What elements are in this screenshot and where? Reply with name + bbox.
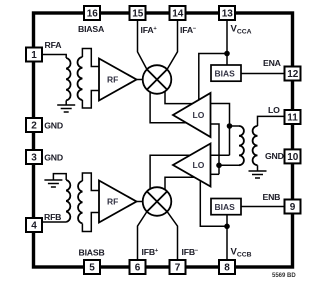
wire mixer A to LO amp A lower (150, 92, 186, 123)
pin 11 (285, 110, 301, 124)
wire VCCB to LO amp B (200, 181, 227, 227)
svg-text:14: 14 (172, 9, 184, 20)
wire LO amp A tap upper (211, 104, 230, 156)
svg-text:12: 12 (287, 69, 299, 80)
wire mixer A to LO amp A upper (165, 92, 192, 104)
pin 5 (84, 260, 100, 274)
wire pin4 to transformer B (40, 221, 66, 223)
pin 7 (170, 260, 186, 274)
wire LO amp B tap lower (211, 173, 220, 175)
pin 16 (84, 6, 100, 20)
wire IFA- pin14 to mixer A (167, 20, 177, 69)
wire secondary top to RF amp B (82, 173, 99, 191)
pin 15 (130, 6, 146, 20)
BIAS A box (211, 65, 241, 81)
wire node to LO coil top (230, 125, 240, 127)
node VCCA junction (224, 51, 230, 57)
svg-text:RF: RF (107, 75, 118, 85)
svg-text:4: 4 (31, 221, 37, 232)
svg-text:2: 2 (31, 121, 37, 132)
svg-text:RFB: RFB (44, 212, 61, 222)
wire VCCB pin8 up to BIAS B (226, 215, 228, 261)
svg-text:10: 10 (287, 152, 299, 163)
RF amp B (99, 181, 137, 223)
wire RF amp B to mixer B (137, 201, 144, 203)
pin 8 (219, 260, 235, 274)
wire LO amp B tap upper (211, 154, 230, 156)
svg-text:5: 5 (89, 263, 95, 274)
pin 1 (26, 48, 42, 62)
transformer A primary coil (66, 58, 70, 100)
svg-text:GND: GND (44, 153, 63, 163)
wire IFB+ pin6 to mixer B (138, 212, 147, 260)
wire LO coil to pin11 (258, 116, 285, 126)
wire mixer B to LO amp B lower (165, 177, 194, 190)
svg-text:6: 6 (135, 263, 141, 274)
chip outer border (34, 13, 293, 267)
pin 9 (285, 200, 301, 214)
pin 6 (130, 260, 146, 274)
svg-text:15: 15 (132, 9, 144, 20)
pin 10 (285, 149, 301, 163)
wire BIAS A to pin12 ENA (241, 73, 285, 75)
LO amp A (173, 93, 211, 137)
svg-text:GND: GND (265, 151, 284, 161)
wire node to LO coil bottom (219, 164, 239, 166)
svg-text:13: 13 (222, 9, 234, 20)
LO transformer secondary coil (239, 126, 244, 165)
svg-text:GND: GND (44, 121, 63, 131)
svg-text:ENA: ENA (263, 58, 282, 68)
svg-text:BIAS: BIAS (215, 202, 236, 212)
wire LO amp A tap lower (211, 124, 220, 174)
node VCCB junction (224, 224, 230, 230)
wire BIAS B to pin9 ENB (241, 206, 285, 208)
BIAS B box (211, 199, 241, 215)
svg-text:7: 7 (175, 263, 181, 274)
pin 13 (219, 6, 235, 20)
svg-text:5569 BD: 5569 BD (272, 273, 296, 279)
transformer B secondary coil (78, 181, 82, 223)
svg-text:BIASA: BIASA (78, 24, 105, 34)
wire secondary bottom to RF amp A (82, 91, 99, 109)
svg-text:LO: LO (268, 105, 280, 115)
svg-text:3: 3 (31, 153, 37, 164)
wire mixer B to LO amp B upper (150, 155, 190, 191)
wire VCCA pin13 down to BIAS A (226, 20, 228, 65)
pin 12 (285, 67, 301, 81)
LO transformer primary coil (253, 126, 258, 165)
svg-text:LO: LO (193, 160, 205, 170)
svg-text:BIAS: BIAS (215, 69, 236, 79)
svg-text:1: 1 (31, 50, 37, 61)
mixer B (143, 187, 172, 216)
svg-text:BIASB: BIASB (79, 248, 105, 258)
pin 4 (26, 218, 42, 232)
wire secondary top to RF amp A (82, 49, 99, 67)
LO amp B (173, 144, 211, 187)
transformer B primary coil (66, 180, 70, 222)
wire IFB- pin7 to mixer B (167, 212, 177, 260)
svg-text:9: 9 (290, 202, 296, 213)
pin 2 (26, 118, 42, 132)
svg-text:11: 11 (287, 113, 298, 124)
svg-text:ENB: ENB (263, 192, 281, 202)
mixer A (143, 65, 172, 94)
ground LO (249, 165, 267, 178)
wire VCCA to LO amp A (199, 54, 227, 101)
pin 3 (26, 150, 42, 164)
RF amp A (99, 59, 137, 101)
pin 14 (170, 6, 186, 20)
ground A (57, 100, 75, 112)
wire secondary bottom to RF amp B (82, 213, 99, 232)
node LO coil bottom (216, 163, 222, 169)
svg-text:LO: LO (193, 110, 205, 120)
wire pin1 to transformer A (42, 55, 66, 59)
wire RF amp A to mixer A (137, 79, 144, 81)
transformer A secondary coil (78, 57, 83, 100)
wire IFA+ pin15 to mixer A (138, 20, 147, 69)
svg-text:8: 8 (224, 263, 230, 274)
node LO coil top (227, 123, 233, 129)
svg-text:16: 16 (87, 9, 99, 20)
ground B (44, 174, 66, 187)
svg-text:RF: RF (107, 197, 118, 207)
svg-text:RFA: RFA (45, 40, 63, 50)
